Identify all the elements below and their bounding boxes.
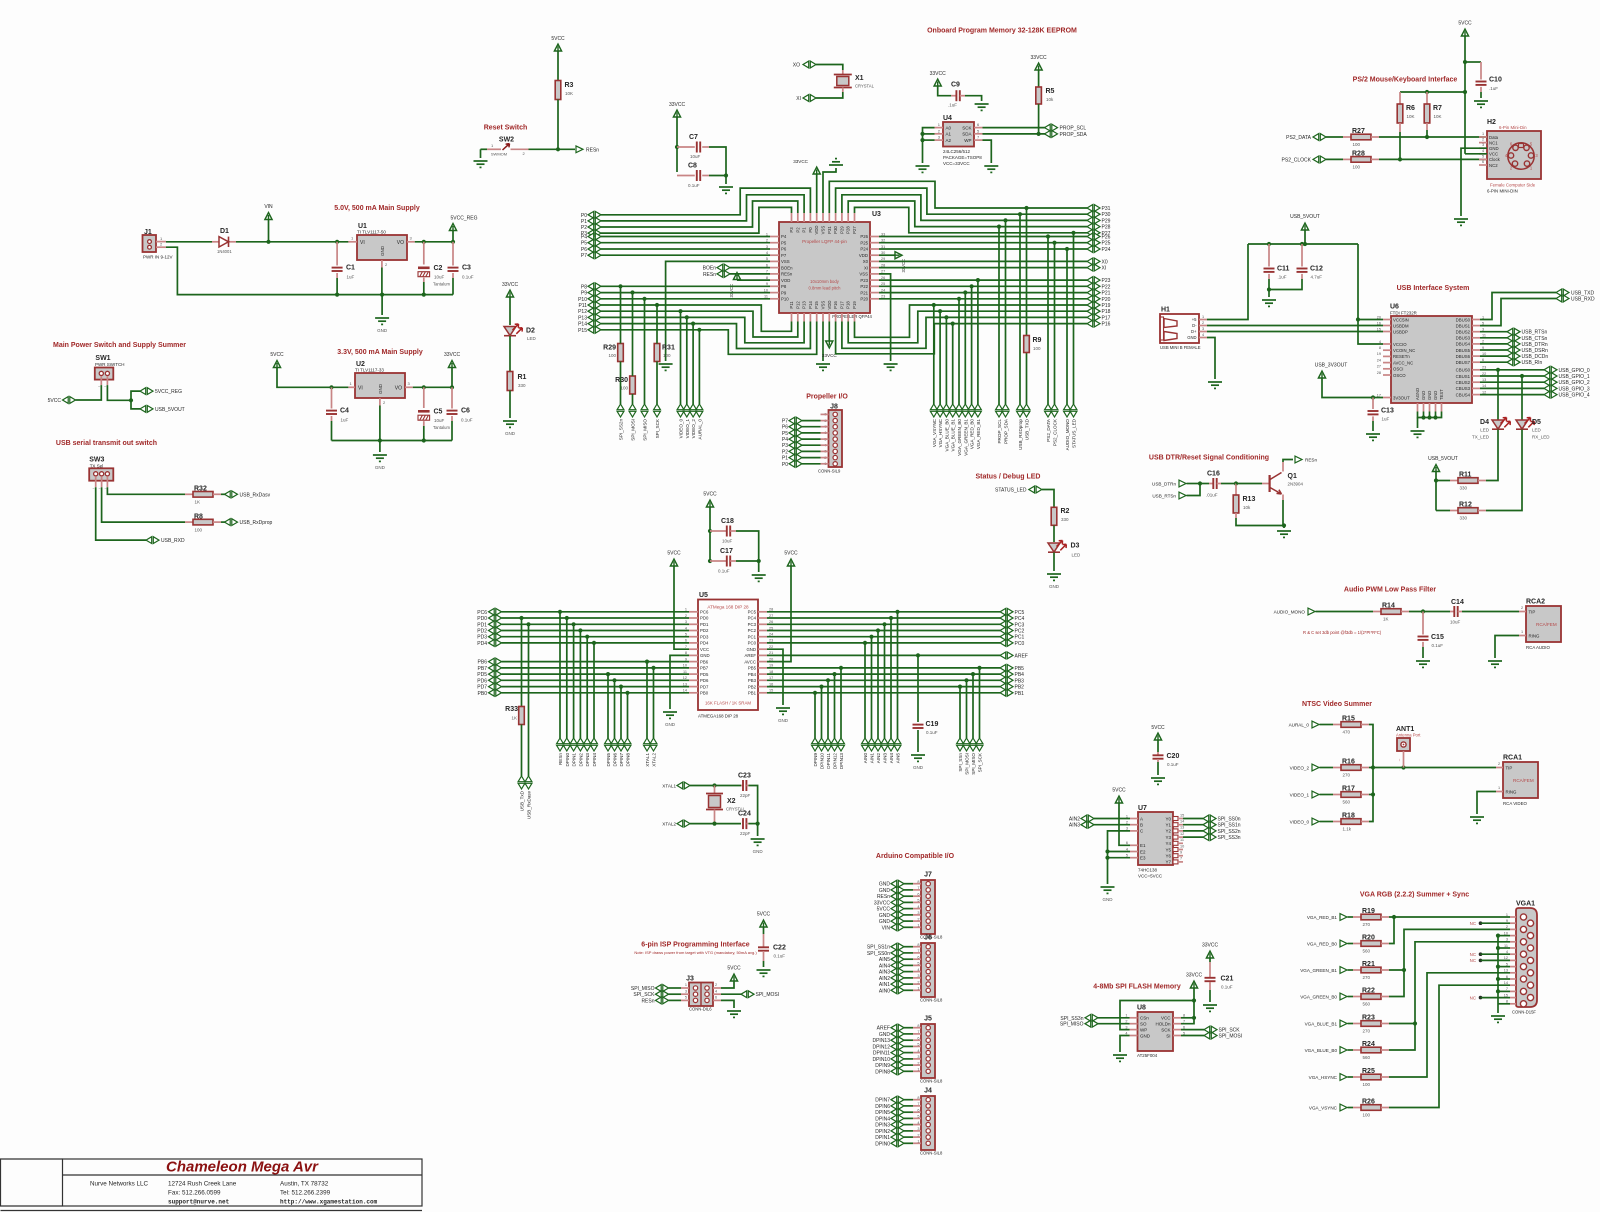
svg-text:DBUS6: DBUS6: [1456, 354, 1471, 359]
wire VO to 33VCC: [413, 386, 452, 388]
svg-text:5VCC: 5VCC: [877, 907, 891, 913]
capacitor C8: [677, 175, 695, 177]
svg-text:X0: X0: [1102, 259, 1108, 265]
wire P31 from top pin: [829, 181, 1087, 213]
wire: [669, 999, 682, 1001]
resistor R33: [519, 707, 525, 725]
svg-text:PD4: PD4: [700, 641, 709, 646]
svg-text:270: 270: [1363, 922, 1371, 927]
junction: [1105, 849, 1109, 853]
svg-text:P13: P13: [578, 315, 587, 321]
svg-text:USB_GPIO_2: USB_GPIO_2: [1559, 380, 1590, 386]
wire VIDEO_2 column: [692, 324, 694, 404]
svg-text:GND: GND: [879, 882, 891, 888]
junction: [422, 438, 426, 442]
wire P8: [601, 285, 770, 287]
node VGA_HSYNC: [937, 404, 944, 417]
svg-text:GND: GND: [1140, 1033, 1151, 1038]
svg-text:PD4: PD4: [477, 641, 487, 647]
svg-text:PC3: PC3: [1015, 622, 1025, 628]
wire P5: [601, 242, 770, 244]
power: [1318, 371, 1325, 378]
svg-text:.1uF: .1uF: [1489, 86, 1498, 91]
svg-text:USB_GPIO_1: USB_GPIO_1: [1559, 374, 1590, 380]
svg-text:XTAL2: XTAL2: [652, 753, 657, 767]
wire PD5: [502, 673, 690, 675]
svg-text:NC: NC: [1470, 952, 1476, 957]
junction: [1267, 287, 1271, 291]
svg-text:U4: U4: [943, 115, 952, 122]
junction: [651, 666, 655, 670]
node RESn: [557, 738, 564, 751]
svg-text:VGA_RED_B0: VGA_RED_B0: [1307, 942, 1338, 947]
LED D3: [1048, 543, 1060, 552]
svg-text:Y4: Y4: [1165, 841, 1171, 846]
svg-text:DBUS4: DBUS4: [1456, 342, 1471, 347]
wire: [736, 279, 738, 282]
ground: [1491, 1016, 1505, 1022]
wire: [1236, 483, 1262, 485]
svg-text:DPIN13: DPIN13: [839, 753, 844, 770]
wire: [802, 426, 821, 428]
junction: [129, 398, 133, 402]
svg-text:P16: P16: [833, 301, 838, 309]
ground: [503, 421, 517, 427]
svg-text:P6: P6: [782, 425, 788, 431]
svg-text:TI TLV1117-33: TI TLV1117-33: [355, 368, 384, 373]
svg-text:SPI_SS1n: SPI_SS1n: [867, 945, 890, 951]
svg-text:0.1uF: 0.1uF: [774, 954, 786, 959]
wire: [676, 117, 678, 172]
node P25: [1087, 239, 1100, 246]
wire P18 from bottom pin: [848, 311, 1087, 343]
svg-text:Y5: Y5: [1165, 847, 1171, 852]
junction: [1496, 989, 1500, 993]
svg-text:CRYSTAL: CRYSTAL: [855, 84, 875, 89]
svg-text:33VCC: 33VCC: [669, 102, 686, 108]
svg-text:R2: R2: [1061, 508, 1070, 515]
wire VGA_BLUE_B1 column: [952, 324, 954, 404]
svg-text:RESn: RESn: [781, 272, 793, 277]
svg-text:GND: GND: [1103, 897, 1114, 902]
svg-text:NC: NC: [1470, 921, 1476, 926]
svg-text:VGA_BLUE_B1: VGA_BLUE_B1: [951, 419, 956, 452]
wire: [1436, 480, 1450, 482]
junction: [558, 610, 562, 614]
wire: [1187, 483, 1201, 485]
wire SPI_MISO column: [644, 299, 646, 404]
svg-text:XI: XI: [864, 265, 868, 270]
wire: [822, 322, 824, 362]
svg-text:USB_TxD: USB_TxD: [520, 790, 525, 811]
junction: [756, 822, 760, 826]
wire: [1399, 132, 1401, 159]
svg-text:P23: P23: [860, 278, 868, 283]
capacitor C13: [1372, 398, 1374, 410]
wire PC0: [767, 642, 1000, 644]
svg-text:USBDP: USBDP: [1393, 329, 1408, 334]
ground: [984, 166, 998, 172]
svg-text:6: 6: [715, 996, 717, 1000]
svg-text:5VCC_REG: 5VCC_REG: [451, 216, 478, 222]
svg-text:USB_RxDprop: USB_RxDprop: [240, 520, 273, 526]
node PS2_CLOCK: [1051, 404, 1058, 417]
svg-text:SPI_MISO: SPI_MISO: [971, 753, 976, 775]
svg-text:VGA_RED_B1: VGA_RED_B1: [1307, 915, 1338, 920]
svg-text:VGA_BLUE_B0: VGA_BLUE_B0: [1305, 1048, 1338, 1053]
svg-text:USB_DSRn: USB_DSRn: [1522, 348, 1549, 354]
svg-text:AGND: AGND: [1415, 388, 1420, 400]
node PC3: [1000, 621, 1013, 628]
svg-text:R20: R20: [1362, 935, 1375, 942]
svg-text:7: 7: [1180, 857, 1182, 861]
power: [1190, 981, 1197, 988]
wire: [904, 1130, 913, 1132]
wire DPIN11 column: [827, 680, 829, 738]
wire: [709, 175, 726, 177]
wire: [1221, 483, 1236, 485]
svg-text:P14: P14: [808, 301, 813, 309]
svg-text:PROP_SCL: PROP_SCL: [997, 419, 1002, 444]
svg-text:PB7: PB7: [700, 666, 709, 671]
wire: [1480, 343, 1507, 345]
svg-text:6: 6: [1506, 975, 1508, 979]
junction: [556, 147, 560, 151]
svg-text:SPI_SCK: SPI_SCK: [655, 418, 660, 438]
svg-text:VI: VI: [358, 385, 363, 391]
junction: [976, 278, 980, 282]
svg-text:R22: R22: [1362, 988, 1375, 995]
svg-text:PB1: PB1: [1015, 691, 1025, 697]
node DPIN11: [825, 738, 832, 751]
wire: [131, 400, 140, 409]
wire: [904, 1124, 913, 1126]
power: [673, 110, 680, 117]
power: [1154, 733, 1161, 740]
svg-text:CBUS2: CBUS2: [1456, 380, 1471, 385]
resistor R16: [1333, 767, 1341, 769]
junction: [526, 622, 530, 626]
wire DPIN13 column: [840, 668, 842, 738]
svg-text:PC3: PC3: [748, 622, 757, 627]
svg-text:Tantalum: Tantalum: [433, 282, 451, 287]
svg-text:AUDIO_MONO: AUDIO_MONO: [1065, 419, 1070, 451]
ground: [1047, 574, 1061, 580]
svg-text:P21: P21: [860, 290, 868, 295]
svg-text:P15: P15: [578, 328, 587, 334]
wire AREF: [767, 654, 1000, 656]
junction: [618, 284, 622, 288]
power: [813, 167, 820, 174]
svg-text:10uF: 10uF: [434, 275, 445, 280]
node P23: [1087, 277, 1100, 284]
junction: [1401, 765, 1405, 769]
junction: [572, 622, 576, 626]
svg-text:Propeller LQFP 44-pin: Propeller LQFP 44-pin: [802, 239, 847, 244]
wire P28 from top pin: [848, 201, 1087, 227]
svg-text:RING: RING: [1529, 634, 1541, 639]
node P20: [1087, 295, 1100, 302]
svg-text:P30: P30: [833, 226, 838, 234]
wire: [904, 1142, 913, 1144]
wire: [721, 981, 734, 988]
svg-text:Reset Switch: Reset Switch: [484, 125, 528, 132]
capacitor C2: [423, 242, 425, 265]
svg-text:A2: A2: [946, 138, 952, 143]
junction: [422, 240, 426, 244]
wire P30 from top pin: [836, 188, 1087, 214]
wire: [277, 368, 332, 388]
wire VO to 5VCC_REG: [415, 241, 453, 243]
svg-text:100: 100: [1353, 164, 1361, 169]
svg-text:P25: P25: [860, 240, 868, 245]
svg-text:P2: P2: [581, 225, 587, 231]
junction: [970, 284, 974, 288]
svg-text:DPIN11: DPIN11: [826, 753, 831, 769]
svg-text:U5: U5: [699, 592, 708, 599]
svg-text:330: 330: [518, 383, 526, 388]
wire DPIN10 column: [821, 687, 823, 738]
svg-text:10: 10: [1180, 844, 1184, 848]
wire: [557, 51, 559, 80]
svg-text:CBUS0: CBUS0: [1456, 368, 1471, 373]
svg-text:5VCC_REG: 5VCC_REG: [155, 389, 182, 395]
svg-text:U8: U8: [1137, 1005, 1146, 1012]
junction: [1198, 481, 1202, 485]
svg-text:USB_DTRn: USB_DTRn: [1152, 482, 1176, 487]
wire USBDM: [1207, 325, 1383, 327]
node P28: [1087, 223, 1100, 230]
svg-text:R7: R7: [1433, 105, 1442, 112]
svg-text:330: 330: [1460, 486, 1468, 491]
wire DPIN2 column: [579, 631, 581, 739]
junction: [678, 309, 682, 313]
wire: [1209, 990, 1211, 1002]
junction: [450, 385, 454, 389]
svg-text:C24: C24: [738, 811, 751, 818]
node USB_RXDprop: [1017, 404, 1024, 417]
wire P13 to bottom pin: [601, 317, 804, 342]
node PB4: [1000, 671, 1013, 678]
svg-text:RCA/FEM: RCA/FEM: [1513, 778, 1534, 783]
svg-text:DPIN5: DPIN5: [606, 753, 611, 767]
svg-text:WP: WP: [964, 138, 971, 143]
svg-text:CBUS3: CBUS3: [1456, 386, 1471, 391]
svg-text:VGA_HSYNC: VGA_HSYNC: [938, 418, 943, 447]
wire: [904, 971, 913, 973]
wire: [379, 406, 381, 441]
wire: [76, 385, 102, 400]
resistor R7: [1426, 92, 1428, 104]
svg-text:AIN5: AIN5: [896, 753, 901, 764]
wire SPI_SCK column: [656, 305, 658, 344]
svg-text:C2: C2: [434, 265, 443, 272]
svg-text:10k: 10k: [1046, 97, 1054, 102]
junction: [997, 225, 1001, 229]
resistor R6: [1399, 92, 1401, 104]
power: [273, 361, 280, 368]
wire: [758, 561, 760, 572]
svg-text:DPIN0: DPIN0: [565, 753, 570, 767]
svg-text:PROPELLER QFP44: PROPELLER QFP44: [832, 314, 872, 319]
svg-text:USB_5VOUT: USB_5VOUT: [1290, 214, 1320, 220]
wire: [1480, 92, 1482, 98]
wire: [1326, 136, 1343, 138]
wire: [690, 785, 741, 787]
svg-text:P25: P25: [1102, 241, 1111, 247]
svg-text:AT25F004: AT25F004: [1137, 1053, 1158, 1058]
wire: [904, 1099, 913, 1101]
svg-text:SPI_SS1n: SPI_SS1n: [1218, 823, 1241, 829]
wire: [423, 282, 425, 295]
wire VOD: [737, 279, 770, 281]
node PROP_SCL: [996, 404, 1003, 417]
svg-text:STATUS_LED: STATUS_LED: [1072, 418, 1077, 448]
svg-text:P28: P28: [1102, 225, 1111, 231]
wire: [1435, 472, 1437, 511]
svg-text:1K: 1K: [195, 500, 201, 505]
svg-text:270: 270: [1343, 773, 1351, 778]
svg-text:P7: P7: [781, 253, 787, 258]
wire: [904, 946, 913, 948]
wire: [1486, 430, 1522, 511]
svg-text:OSCI: OSCI: [1393, 367, 1404, 372]
svg-text:14: 14: [1504, 981, 1508, 985]
capacitor C17: [710, 560, 727, 562]
svg-text:TEST: TEST: [1439, 389, 1444, 400]
wire: [1480, 331, 1507, 333]
node PS2_DATA: [1045, 404, 1052, 417]
wire: [1268, 279, 1270, 290]
wire: [166, 241, 212, 243]
svg-text:5VCC: 5VCC: [1458, 21, 1472, 27]
capacitor C11: [1268, 244, 1270, 267]
svg-text:USB_GPIO_3: USB_GPIO_3: [1559, 386, 1590, 392]
svg-text:GND: GND: [1433, 391, 1438, 400]
node VGA_RED_B1: [975, 404, 982, 417]
wire: [1422, 647, 1424, 658]
junction: [329, 385, 333, 389]
svg-text:P5: P5: [581, 241, 587, 247]
wire: [938, 86, 951, 96]
svg-text:VI: VI: [360, 240, 365, 246]
svg-text:AUDIO_MONO: AUDIO_MONO: [1274, 610, 1306, 615]
svg-text:R30: R30: [615, 377, 628, 384]
node AIN4: [888, 738, 895, 751]
node VIDEO_2: [690, 404, 697, 417]
wire: [983, 127, 1046, 129]
svg-text:SPI_SCK: SPI_SCK: [633, 992, 655, 998]
node DPIN6: [611, 738, 618, 751]
wire: [1426, 130, 1428, 137]
junction: [519, 616, 523, 620]
svg-text:DPIN1: DPIN1: [875, 1135, 890, 1141]
node PROP_SDA: [1002, 404, 1009, 417]
junction: [1425, 135, 1429, 139]
wire: [452, 231, 454, 242]
wire: [509, 336, 511, 372]
ground: [375, 318, 389, 324]
node PC2: [1000, 627, 1013, 634]
svg-text:XO: XO: [793, 63, 800, 69]
node USB_RxDprop: [225, 519, 238, 526]
svg-text:SDA: SDA: [962, 132, 971, 137]
svg-text:SPI_SS0n: SPI_SS0n: [867, 951, 890, 957]
wire P9: [601, 292, 770, 294]
svg-text:R14: R14: [1382, 603, 1395, 610]
svg-text:24LC256/512: 24LC256/512: [943, 149, 971, 154]
svg-text:560: 560: [1363, 1002, 1371, 1007]
svg-text:PD0: PD0: [477, 616, 487, 622]
svg-text:Propeller I/O: Propeller I/O: [806, 394, 848, 401]
node VIDEO_1: [683, 404, 690, 417]
svg-text:~: ~: [99, 487, 101, 491]
wire PC2: [767, 630, 1000, 632]
svg-text:PC5: PC5: [748, 610, 757, 615]
svg-text:PC0: PC0: [748, 641, 757, 646]
junction: [1496, 368, 1500, 372]
node AIN3: [881, 738, 888, 751]
svg-text:VDD: VDD: [859, 253, 868, 258]
wire PB7: [502, 667, 690, 669]
junction: [826, 678, 830, 682]
svg-text:RESn: RESn: [877, 894, 890, 900]
svg-text:P30: P30: [1102, 212, 1111, 218]
node SPI_SS1n: [1203, 821, 1216, 828]
svg-text:PS2_DATA: PS2_DATA: [1286, 135, 1311, 141]
junction: [882, 622, 886, 626]
wire: [904, 1064, 913, 1066]
svg-text:~: ~: [93, 487, 95, 491]
svg-text:AIN3: AIN3: [1069, 823, 1080, 829]
wire XTAL1 column: [646, 662, 648, 738]
svg-text:5: 5: [1482, 154, 1484, 158]
svg-text:P7: P7: [782, 419, 788, 425]
svg-text:C18: C18: [721, 518, 734, 525]
svg-text:1K: 1K: [511, 716, 517, 721]
svg-text:PROP_SCL: PROP_SCL: [1060, 126, 1087, 132]
svg-text:C15: C15: [1431, 634, 1444, 641]
svg-text:XTAL2: XTAL2: [662, 822, 676, 827]
junction: [1065, 247, 1069, 251]
junction: [819, 685, 823, 689]
svg-text:1: 1: [1498, 786, 1500, 790]
svg-text:USBDM: USBDM: [1393, 323, 1409, 328]
wire: [331, 421, 333, 441]
junction: [1234, 481, 1238, 485]
svg-text:E2: E2: [1140, 849, 1146, 854]
wire: [904, 1052, 913, 1054]
svg-text:100: 100: [1033, 346, 1041, 351]
svg-text:R3: R3: [565, 82, 574, 89]
svg-text:GND: GND: [375, 465, 386, 470]
svg-text:2: 2: [715, 983, 717, 987]
svg-text:R28: R28: [1352, 150, 1365, 157]
svg-text:DPIN10: DPIN10: [872, 1057, 890, 1063]
svg-text:USB_RXDprop: USB_RXDprop: [1018, 419, 1023, 450]
junction: [971, 672, 975, 676]
wire: [1480, 387, 1544, 389]
power: [826, 341, 833, 348]
wire: [1283, 526, 1285, 529]
svg-text:33VCC: 33VCC: [1031, 55, 1048, 61]
svg-text:PACKAGE=TSOP8: PACKAGE=TSOP8: [943, 155, 982, 160]
svg-text:560: 560: [1363, 1055, 1371, 1060]
svg-text:1: 1: [1202, 315, 1204, 319]
wire: [1320, 794, 1334, 796]
wire PD6: [502, 679, 690, 681]
svg-text:PB2: PB2: [1015, 685, 1025, 691]
